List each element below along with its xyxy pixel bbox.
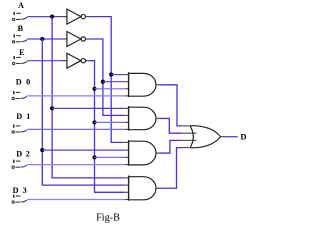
inverter U3 [67, 53, 86, 68]
AND U6 output stub [156, 152, 160, 154]
node A junction [50, 15, 54, 19]
AND gate U6 pin stubs [123, 142, 129, 164]
node B' tap to AND1 [101, 80, 105, 84]
inverter U2 output stub [86, 38, 89, 40]
AND U5 output stub [156, 117, 160, 119]
wire AND3 output to OR pin3 [160, 140, 182, 153]
AND gate U7 pin stubs [125, 178, 129, 200]
wire B' to AND1 pin2 [103, 81, 125, 83]
svg-text:A: A [18, 1, 24, 10]
wire E' to AND1 pin3 [95, 88, 125, 90]
wire AND1 output to OR pin1 [160, 85, 182, 126]
node E' tap to AND1 [92, 87, 96, 91]
inverter U2 input stub [61, 38, 67, 40]
AND gate U4 pin stubs [125, 75, 129, 96]
wire E' to AND3 pin3 [95, 156, 125, 158]
svg-text:D2: D2 [16, 149, 30, 158]
wire A to AND2 pin1 [52, 107, 125, 109]
svg-text:D1: D1 [16, 112, 30, 121]
inverter U1 input stub [61, 16, 67, 18]
inverter U3 input stub [61, 60, 67, 62]
wire OR output [226, 136, 238, 138]
wire E' from U3 to vertical bus [89, 61, 125, 193]
switch SW-D2 [12, 160, 27, 169]
wire A' from U1 to vertical bus [89, 17, 123, 143]
node A tap to AND2 [50, 106, 54, 110]
wire B to AND3 pin2 [42, 149, 125, 151]
node E' tap to AND2 [92, 120, 96, 124]
node B tap to AND3 [40, 148, 44, 152]
AND U4 output stub [156, 84, 160, 86]
svg-text:D: D [240, 132, 246, 142]
wire A row [27, 16, 61, 18]
svg-text:D3: D3 [13, 186, 27, 195]
wire A' to AND1 pin1 [111, 74, 125, 76]
switch SW-A [12, 12, 27, 21]
switch SW-D0 [12, 91, 27, 100]
wire D2 to AND3 pin4 [27, 164, 125, 166]
svg-text:D0: D0 [16, 78, 30, 87]
node E' tap to AND3 [92, 155, 96, 159]
wire E' to AND2 pin3 [95, 121, 125, 123]
switch SW-B [12, 34, 27, 43]
wire AND2 output to OR pin2 [160, 118, 182, 133]
svg-text:E: E [19, 48, 25, 57]
node B junction [40, 37, 44, 41]
AND gate U6 [129, 140, 156, 166]
wire D1 to AND2 pin4 [27, 128, 125, 130]
inverter U1 output stub [86, 16, 89, 18]
switch SW-D1 [12, 125, 27, 134]
wire A vertical bus [52, 17, 125, 178]
AND gate U5 [129, 106, 156, 131]
wire D0 to AND1 pin4 [27, 95, 125, 97]
wire B vertical bus [42, 39, 125, 185]
OR U8 output stub [221, 136, 227, 138]
svg-text:B: B [18, 24, 24, 33]
inverter U1 [67, 9, 86, 24]
OR gate U8 [190, 126, 221, 148]
node A' tap to AND1 [109, 73, 113, 77]
switch SW-E [12, 56, 27, 65]
svg-text:Fig-B: Fig-B [96, 212, 120, 223]
wire E row [27, 60, 61, 62]
wire B' from U2 to vertical bus [89, 39, 125, 115]
AND gate U4 [129, 72, 156, 97]
AND gate U5 pin stubs [125, 108, 129, 129]
AND U7 output stub [156, 187, 160, 189]
wire B row [27, 38, 61, 40]
AND gate U7 [129, 176, 156, 201]
OR gate U8 pin stubs [182, 126, 197, 148]
wire D3 to AND4 pin4 [27, 199, 125, 201]
inverter U3 output stub [86, 60, 89, 62]
inverter U2 [67, 32, 86, 47]
wire AND4 output to OR pin4 [160, 148, 182, 189]
switch SW-D3 [12, 195, 27, 204]
